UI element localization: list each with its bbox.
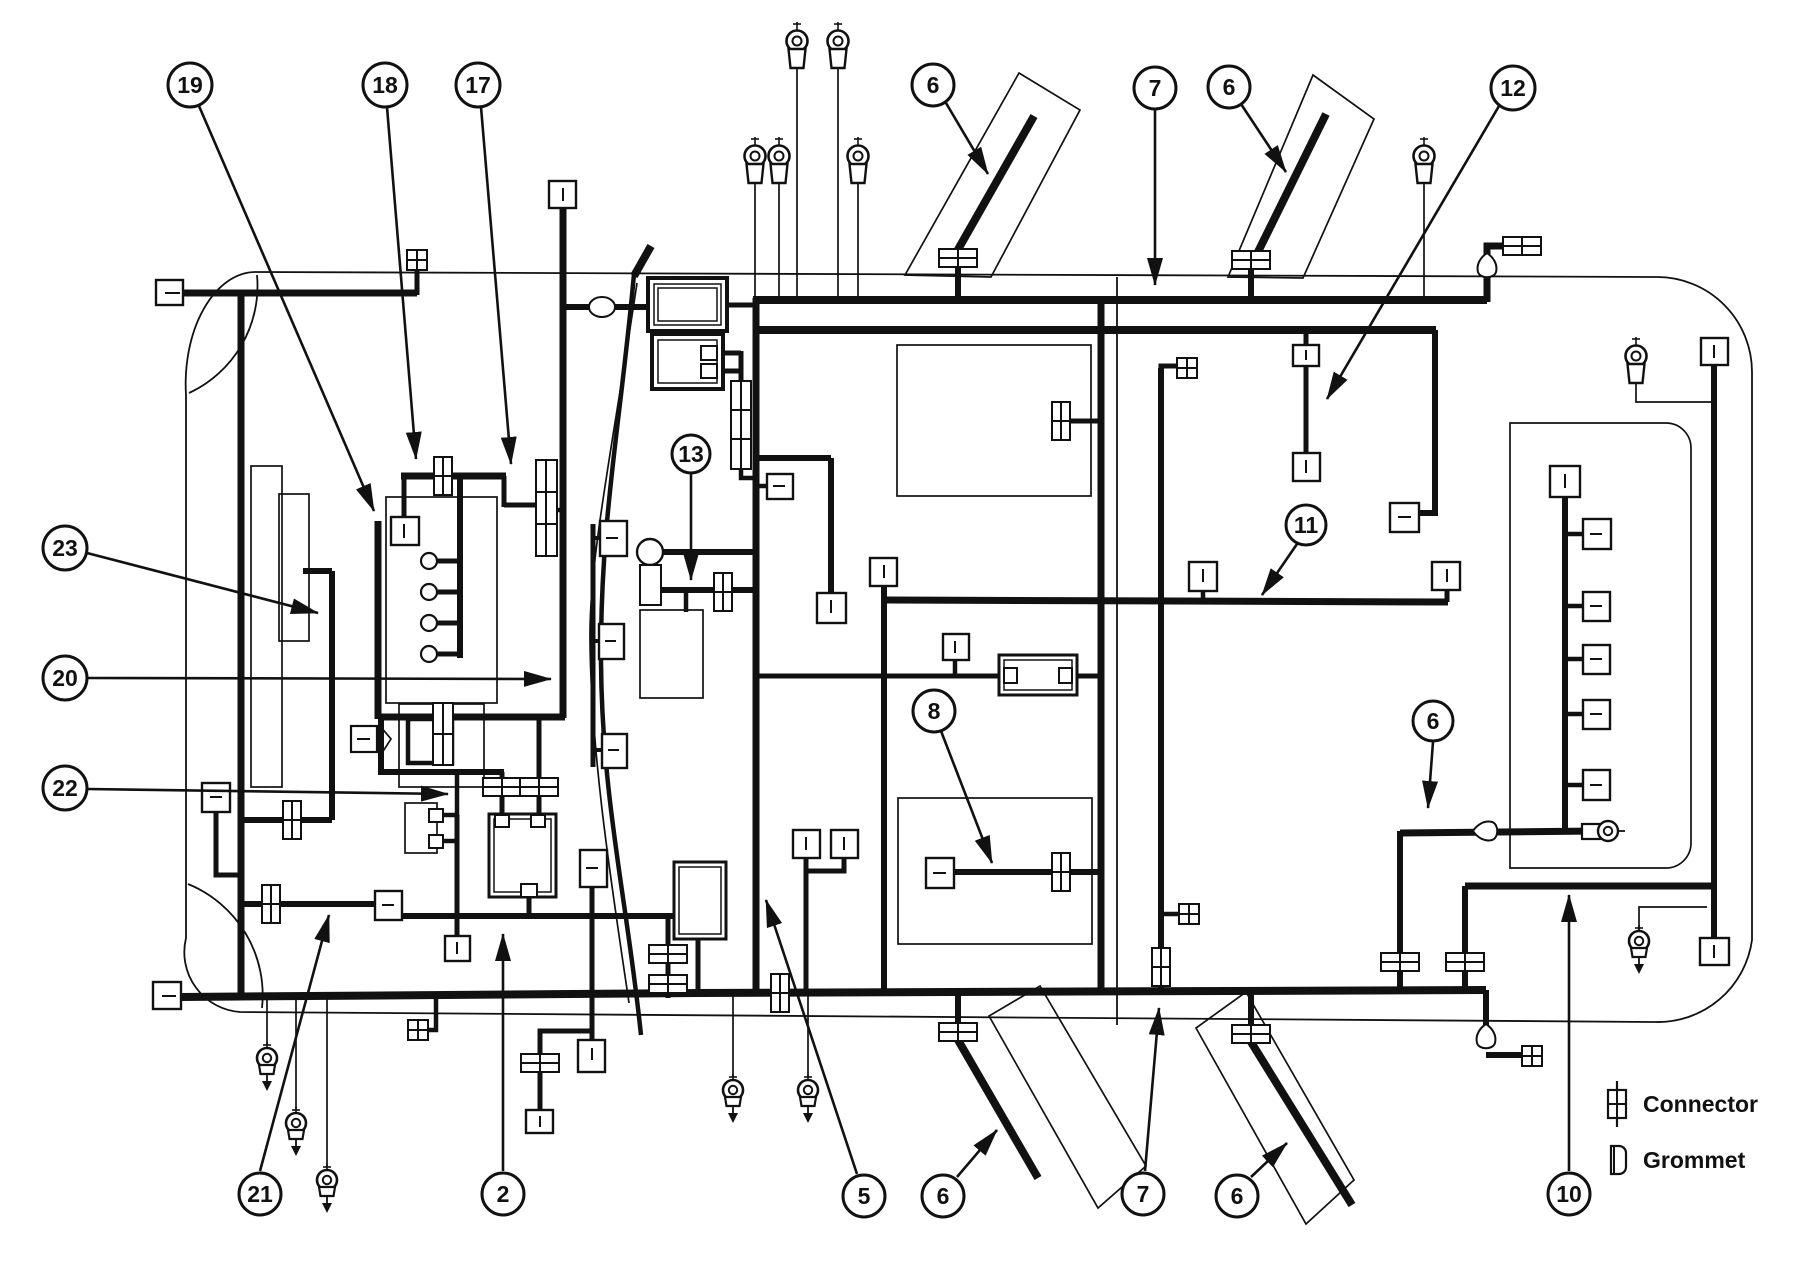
wire: sensor feed y551 <box>663 549 756 555</box>
wire: lamp module link to trunk line <box>727 303 758 308</box>
connector: tank top <box>1052 402 1070 440</box>
front wheel arch arc <box>189 275 258 393</box>
trunk harness head connector <box>1550 466 1580 497</box>
lead: ring terminal t5 <box>857 183 859 300</box>
svg-text:19: 19 <box>177 72 203 98</box>
svg-text:5: 5 <box>858 1183 871 1209</box>
wire: trunk stub 2 <box>1565 604 1584 609</box>
11 end connector <box>1432 562 1460 590</box>
wire: branch y458 <box>756 455 831 461</box>
wire: connector box drop x884 <box>881 586 887 991</box>
wire: relay internal bus <box>457 474 463 658</box>
relay box outline <box>386 497 497 703</box>
11 mid connector <box>1189 562 1217 591</box>
lead: ground g3 <box>326 997 328 1166</box>
seat rail outline left tall <box>251 466 282 787</box>
callout 13 <box>672 435 710 473</box>
connector: module stack <box>731 381 751 469</box>
wire: trunk stub 3 <box>1565 657 1584 662</box>
wire: module plug lead 1 <box>717 351 741 356</box>
terminal circle 1 <box>421 553 437 569</box>
right quarter bottom connector <box>1700 938 1729 965</box>
lead: ring terminal t6 <box>1423 183 1425 300</box>
pointer 18 <box>387 107 416 459</box>
battery plug 2 <box>531 815 545 827</box>
svg-text:12: 12 <box>1500 75 1526 101</box>
grommet: top right <box>1478 253 1497 277</box>
lead: ground g5 <box>807 993 809 1076</box>
door harness stub bottom 2 <box>1248 990 1254 1028</box>
wire: relay terminal stub 1 <box>437 559 460 564</box>
wire: top right elbow <box>1487 246 1513 302</box>
callout 20 <box>43 656 87 700</box>
callout 6d <box>922 1175 964 1217</box>
connector: quarter right small <box>1179 904 1199 924</box>
callout 23 <box>43 526 87 570</box>
connector: floor x668 lower <box>649 975 687 993</box>
12 jumper connector lower <box>1293 453 1320 481</box>
connector: x1161 inline <box>1152 948 1170 986</box>
callout 6e <box>1216 1175 1258 1217</box>
callout 22 <box>43 766 87 810</box>
12 jumper connector upper <box>1293 345 1319 366</box>
callout 17 <box>456 63 500 107</box>
wire: vertical x457 to floor run <box>455 815 460 916</box>
wire: column drop from cowl box <box>560 206 567 718</box>
wire: relay to connector stack link <box>504 503 536 508</box>
wire: mid floor run y916 <box>398 913 674 919</box>
wire: drop x539 to battery plug <box>537 717 542 816</box>
right quarter top connector <box>1701 338 1728 365</box>
sensor box outline <box>640 610 703 698</box>
wire: right quarter vertical x1714 <box>1711 364 1717 945</box>
wire: branch y571 elbow <box>303 568 332 574</box>
connector: relay top <box>434 457 452 495</box>
svg-text:21: 21 <box>247 1181 273 1207</box>
battery plug bottom <box>521 884 537 897</box>
svg-text:11: 11 <box>1294 512 1319 538</box>
wire: chain x593 <box>591 524 596 767</box>
ring terminal t2 <box>828 22 849 68</box>
connector: sensor lead <box>714 573 732 611</box>
callout 8 <box>913 690 955 732</box>
svg-text:6: 6 <box>1231 1183 1244 1209</box>
THIN COMPONENT OUTLINES <box>251 345 1691 944</box>
connector box: harness 21 end <box>375 891 402 920</box>
trunk branch box 2 <box>1583 592 1610 621</box>
callout 6b <box>1208 66 1250 108</box>
pointer 2 <box>502 934 505 1171</box>
wire: kick panel drop from box <box>216 810 241 875</box>
wire: branch to under-floor connector <box>540 1031 592 1111</box>
wire: ring terminal lead top right <box>1636 383 1712 402</box>
wire: long cross-car run y602 <box>884 600 1448 602</box>
wire: license lamp tail <box>1483 990 1489 1042</box>
wire: bottom main run <box>181 990 1486 997</box>
callout 6a <box>912 64 954 106</box>
pointer 7 bottom <box>1145 1008 1159 1171</box>
pointer 6 bottom2 <box>1251 1143 1287 1177</box>
sender box 8 left <box>926 858 954 888</box>
svg-text:17: 17 <box>465 72 491 98</box>
wire: relay box top run <box>401 473 506 480</box>
trunk branch box 5 <box>1583 770 1610 800</box>
coil bracket outline <box>399 704 484 787</box>
connector: coil stack <box>433 703 453 765</box>
wire: twin box drop x806 <box>804 871 809 991</box>
wire: main center vertical x756 <box>753 298 760 993</box>
wire: tank sender run y872 <box>954 869 1101 875</box>
ignition switch body <box>405 803 437 853</box>
connector: harness21 <box>262 885 280 923</box>
fuel tank outline upper <box>897 345 1091 496</box>
cowl connector box top <box>549 181 576 208</box>
12 drop end connector <box>1390 503 1419 532</box>
wire: stack bottom link <box>741 466 756 478</box>
pointer 17 <box>481 107 511 464</box>
mid connector box y640 <box>943 634 969 660</box>
wire: chain stub 1 <box>593 536 601 540</box>
wire: drop x502 to battery plug <box>500 772 505 816</box>
wire: vertical x332 <box>329 571 335 820</box>
seat rail outline left step <box>279 494 309 641</box>
trunk branch box 1 <box>1583 519 1611 549</box>
wire: trunk stub 4 <box>1565 712 1584 717</box>
bracket lines <box>380 726 391 756</box>
wire: drop x831 <box>828 458 834 595</box>
connector: diag top 1 <box>939 249 977 267</box>
wire: stack to column link <box>557 508 565 513</box>
terminal circle 3 <box>421 615 437 631</box>
connector: license plate <box>1522 1046 1542 1066</box>
connector: battery feed right <box>520 778 558 796</box>
rear seat module double border <box>674 862 726 939</box>
wire: chain stub 3 <box>593 748 603 752</box>
fuel tank outline lower <box>898 798 1092 944</box>
callout 21 <box>239 1173 281 1215</box>
chain connector box 1 <box>600 521 627 556</box>
wire: relay box bottom run <box>378 714 565 721</box>
wire: main top run y300 <box>753 296 1487 304</box>
wire: small stub connector x436 <box>428 995 436 1030</box>
svg-text:6: 6 <box>1223 74 1236 100</box>
sensor cylinder <box>640 565 661 605</box>
svg-text:Connector: Connector <box>1643 1091 1758 1117</box>
wire: main mid vertical x1101 <box>1098 300 1105 991</box>
trunk branch box 3 <box>1583 645 1610 674</box>
pointer 13 <box>690 474 693 580</box>
connector: top right end <box>1503 237 1541 255</box>
wire: stub below floor run x457 <box>455 916 460 938</box>
BODY OUTLINE GROUP <box>184 272 1752 1025</box>
chain connector box 3 <box>602 734 627 768</box>
wire: stub to quarter connector <box>1161 912 1181 917</box>
wire: top-left main run <box>180 290 417 297</box>
pointer 20 <box>87 678 551 679</box>
rear wheel arch arc <box>188 884 263 1008</box>
pointer 8 <box>941 731 992 863</box>
under floor box <box>526 1110 553 1133</box>
wire: 12 drop x1435 <box>1419 330 1435 513</box>
wire: rear lower run y886 <box>1465 883 1714 890</box>
pointer 6 top1 <box>946 103 988 174</box>
svg-text:23: 23 <box>52 535 78 561</box>
terminal circle 2 <box>421 584 437 600</box>
wire: console harness hook <box>634 246 651 276</box>
svg-text:2: 2 <box>497 1181 510 1207</box>
wire: feed to lamp module <box>563 304 650 310</box>
ignition plug 1 <box>429 809 443 822</box>
wire: chain stub 2 <box>593 639 600 643</box>
lead: ground g1 <box>266 997 268 1044</box>
connector: battery feed left <box>483 778 521 796</box>
wire: 11 mid connector stub <box>1201 591 1206 601</box>
svg-text:Grommet: Grommet <box>1643 1147 1746 1173</box>
svg-text:13: 13 <box>678 441 704 467</box>
battery plug 1 <box>495 815 509 827</box>
module plug b <box>701 364 717 378</box>
wire: license lamp elbow <box>1486 1052 1524 1058</box>
connector: cowl side right <box>1177 358 1197 378</box>
connector box: top-left bumper <box>156 280 183 305</box>
connector box: kick panel <box>202 783 230 812</box>
lead: ground g4 <box>732 993 734 1076</box>
connector box: x457 end <box>445 936 470 961</box>
svg-text:18: 18 <box>372 72 398 98</box>
connector box x756 service <box>767 474 793 499</box>
svg-text:8: 8 <box>928 698 941 724</box>
ground g5 <box>798 1074 818 1123</box>
svg-text:22: 22 <box>52 775 78 801</box>
ground g3 <box>317 1164 337 1213</box>
body seam line <box>1116 277 1118 1025</box>
grommet: license <box>1477 1024 1496 1048</box>
pointer 6 mid right <box>1428 742 1433 808</box>
callout 18 <box>363 63 407 107</box>
wire: relay box left edge <box>375 521 382 719</box>
wire: tank top connector stub <box>1071 419 1101 424</box>
rear seat chain box lower <box>578 1040 605 1072</box>
svg-text:7: 7 <box>1149 75 1162 101</box>
ring terminal t4 <box>769 137 790 183</box>
door harness lead bottom 2 <box>1251 1042 1352 1205</box>
ring terminal t1 <box>787 22 808 68</box>
lead: ground g2 <box>295 997 297 1109</box>
door harness outline bottom 1 <box>989 986 1146 1208</box>
sensor ball <box>637 539 663 565</box>
pointer 21 <box>260 915 329 1171</box>
connector: stub x428 <box>408 1020 428 1040</box>
callout 11 <box>1286 505 1326 545</box>
ring terminal t3 <box>745 137 766 183</box>
pointer 6 bottom1 <box>957 1130 997 1177</box>
connector: diag bottom 2 <box>1232 1025 1270 1043</box>
wire: drop x668 <box>666 916 671 998</box>
wire: right vertical x1161 <box>1158 368 1164 991</box>
trunk compartment outline <box>1510 423 1691 868</box>
floorpan outline <box>184 272 1752 1022</box>
ground g1 <box>257 1042 277 1091</box>
ring terminal horizontal tail <box>1582 824 1600 839</box>
wire: ignition switch leads <box>443 772 457 815</box>
svg-text:6: 6 <box>937 1183 950 1209</box>
callout 7b <box>1122 1173 1164 1215</box>
pointer 19 <box>199 106 374 511</box>
connector box end x831 <box>817 593 846 623</box>
sender plug left <box>1004 668 1017 683</box>
callout 6c <box>1413 701 1453 741</box>
wire: relay terminal stub 2 <box>437 590 460 595</box>
wire: 12 jumper upper <box>1304 330 1309 455</box>
wire: connector stub x756 y486 <box>756 484 768 489</box>
pointer 7 top <box>1154 110 1157 285</box>
svg-text:6: 6 <box>927 72 940 98</box>
wire: module plug lead 2 <box>717 369 741 374</box>
ring terminal t7 <box>1626 337 1647 383</box>
twin connector box b <box>831 830 858 858</box>
connector box: bottom-left bumper <box>153 982 181 1009</box>
pointer 12 <box>1327 106 1499 399</box>
wire: branch y828 to trunk <box>241 817 332 823</box>
terminal circle 4 <box>421 646 437 662</box>
connector: floor x780 <box>771 974 789 1012</box>
connector box x884 head <box>870 558 897 586</box>
sender unit double border <box>999 655 1077 695</box>
wire: relay right corner drop <box>502 476 507 507</box>
wire: battery bottom lead <box>527 897 532 916</box>
wire: relay terminal stub 4 <box>437 652 460 657</box>
chain connector box 2 <box>599 624 624 659</box>
wire: sensor stub <box>684 591 689 612</box>
sender unit feed <box>953 660 958 676</box>
connector: diag bottom 1 <box>939 1023 977 1041</box>
lead: ring terminal t1 <box>796 68 798 300</box>
callout 10 <box>1548 1173 1590 1215</box>
twin connector box a <box>793 830 820 858</box>
lamp module box lower multi-border <box>652 334 723 389</box>
wire: twin box leads <box>806 858 844 871</box>
connector: under floor x540 <box>521 1054 559 1072</box>
connector: relay side stack <box>536 460 557 556</box>
wire: stub up to cowl connector <box>415 270 420 295</box>
wire: rear seat drop x592 <box>590 887 595 1041</box>
wire: coil inner loop <box>408 719 452 763</box>
rear seat chain box upper <box>580 850 607 887</box>
callout 7a <box>1134 67 1176 109</box>
wire: tail harness y831 <box>1400 831 1598 833</box>
module plug a <box>701 346 717 360</box>
connector: cowl top small <box>407 250 427 270</box>
connector: floor x668 upper <box>649 945 687 963</box>
lamp module box upper multi-border <box>648 278 727 331</box>
wire: relay terminal stub 3 <box>437 621 460 626</box>
legend connector icon <box>1608 1081 1626 1127</box>
connector: rear x1465 <box>1446 953 1484 971</box>
wire: trunk harness vertical x1565 <box>1562 494 1568 833</box>
door harness lead bottom 1 <box>958 1040 1038 1178</box>
pointer 5 <box>766 900 857 1174</box>
connector: branch y828 <box>283 801 301 839</box>
svg-text:6: 6 <box>1427 708 1440 734</box>
svg-text:7: 7 <box>1137 1181 1150 1207</box>
wire: relay feed drop to connector <box>402 476 407 519</box>
callout 19 <box>168 63 212 107</box>
wire: trunk stub 1 <box>1565 532 1584 537</box>
door harness outline top 1 <box>905 73 1080 277</box>
pointer 6 top2 <box>1241 104 1286 172</box>
door harness outline bottom 2 <box>1196 992 1354 1224</box>
wire: ignition lead 2 <box>443 839 457 844</box>
door harness outline top 2 <box>1228 75 1374 278</box>
connector box: relay feed <box>391 517 419 545</box>
door harness stub top 1 <box>955 266 961 302</box>
door harness stub top 2 <box>1248 268 1254 302</box>
ring terminal t5 <box>848 137 869 183</box>
wire: coil bracket bottom run <box>381 717 504 772</box>
wire: drop x698 from module <box>696 939 701 993</box>
pointer 22 <box>87 789 448 794</box>
wire: sensor lead y590 <box>660 587 756 593</box>
wire: ground lead thin right <box>1639 907 1707 930</box>
door harness stub bottom 1 <box>955 990 961 1026</box>
ignition plug 2 <box>429 835 443 848</box>
wire: plug leads to stack <box>739 351 744 380</box>
ground g2 <box>286 1107 306 1156</box>
lead: ring terminal t3 <box>754 183 756 300</box>
ring terminal t6 <box>1414 137 1435 183</box>
lead: ring terminal t2 <box>837 68 839 300</box>
callout 2 <box>482 1173 524 1215</box>
pointer 23 <box>87 553 318 613</box>
svg-text:20: 20 <box>52 665 78 691</box>
connector box: diagnostic E <box>351 726 377 752</box>
connector: tank sender <box>1052 853 1070 891</box>
wire: rear drop x1465 <box>1462 886 1468 991</box>
wire: tail drop x1400 <box>1397 831 1403 991</box>
ground g4 <box>723 1074 743 1123</box>
pointer 11 <box>1262 544 1297 595</box>
wire: door sill curve thin <box>590 283 637 1003</box>
grommet: lamp feed <box>589 297 615 317</box>
connector: tail x1400 <box>1381 953 1419 971</box>
wire: second top run y330 <box>756 326 1436 334</box>
wire: 11 end stub <box>1445 589 1450 602</box>
wire: harness 21 run <box>241 901 376 907</box>
lead: ring terminal t4 <box>778 183 780 300</box>
sender plug right <box>1059 668 1072 683</box>
connector: diag top 2 <box>1232 251 1270 269</box>
grommet: tail lamp <box>1473 822 1497 841</box>
wire: trunk stub 5 <box>1565 783 1584 788</box>
wire: console harness curve <box>601 274 641 1035</box>
svg-text:10: 10 <box>1556 1181 1582 1207</box>
wire: left main vertical trunk <box>238 290 245 998</box>
legend grommet icon <box>1611 1146 1626 1174</box>
callout 5 <box>843 1175 885 1217</box>
wire: elbow to cowl side connector <box>1161 366 1178 370</box>
door harness lead top 1 <box>956 116 1034 253</box>
trunk branch box 4 <box>1583 700 1610 729</box>
battery box double border <box>489 814 556 897</box>
callout 12 <box>1491 66 1535 110</box>
ground g6 right <box>1629 925 1649 974</box>
pointer 10 <box>1568 895 1571 1171</box>
door harness lead top 2 <box>1253 114 1326 262</box>
